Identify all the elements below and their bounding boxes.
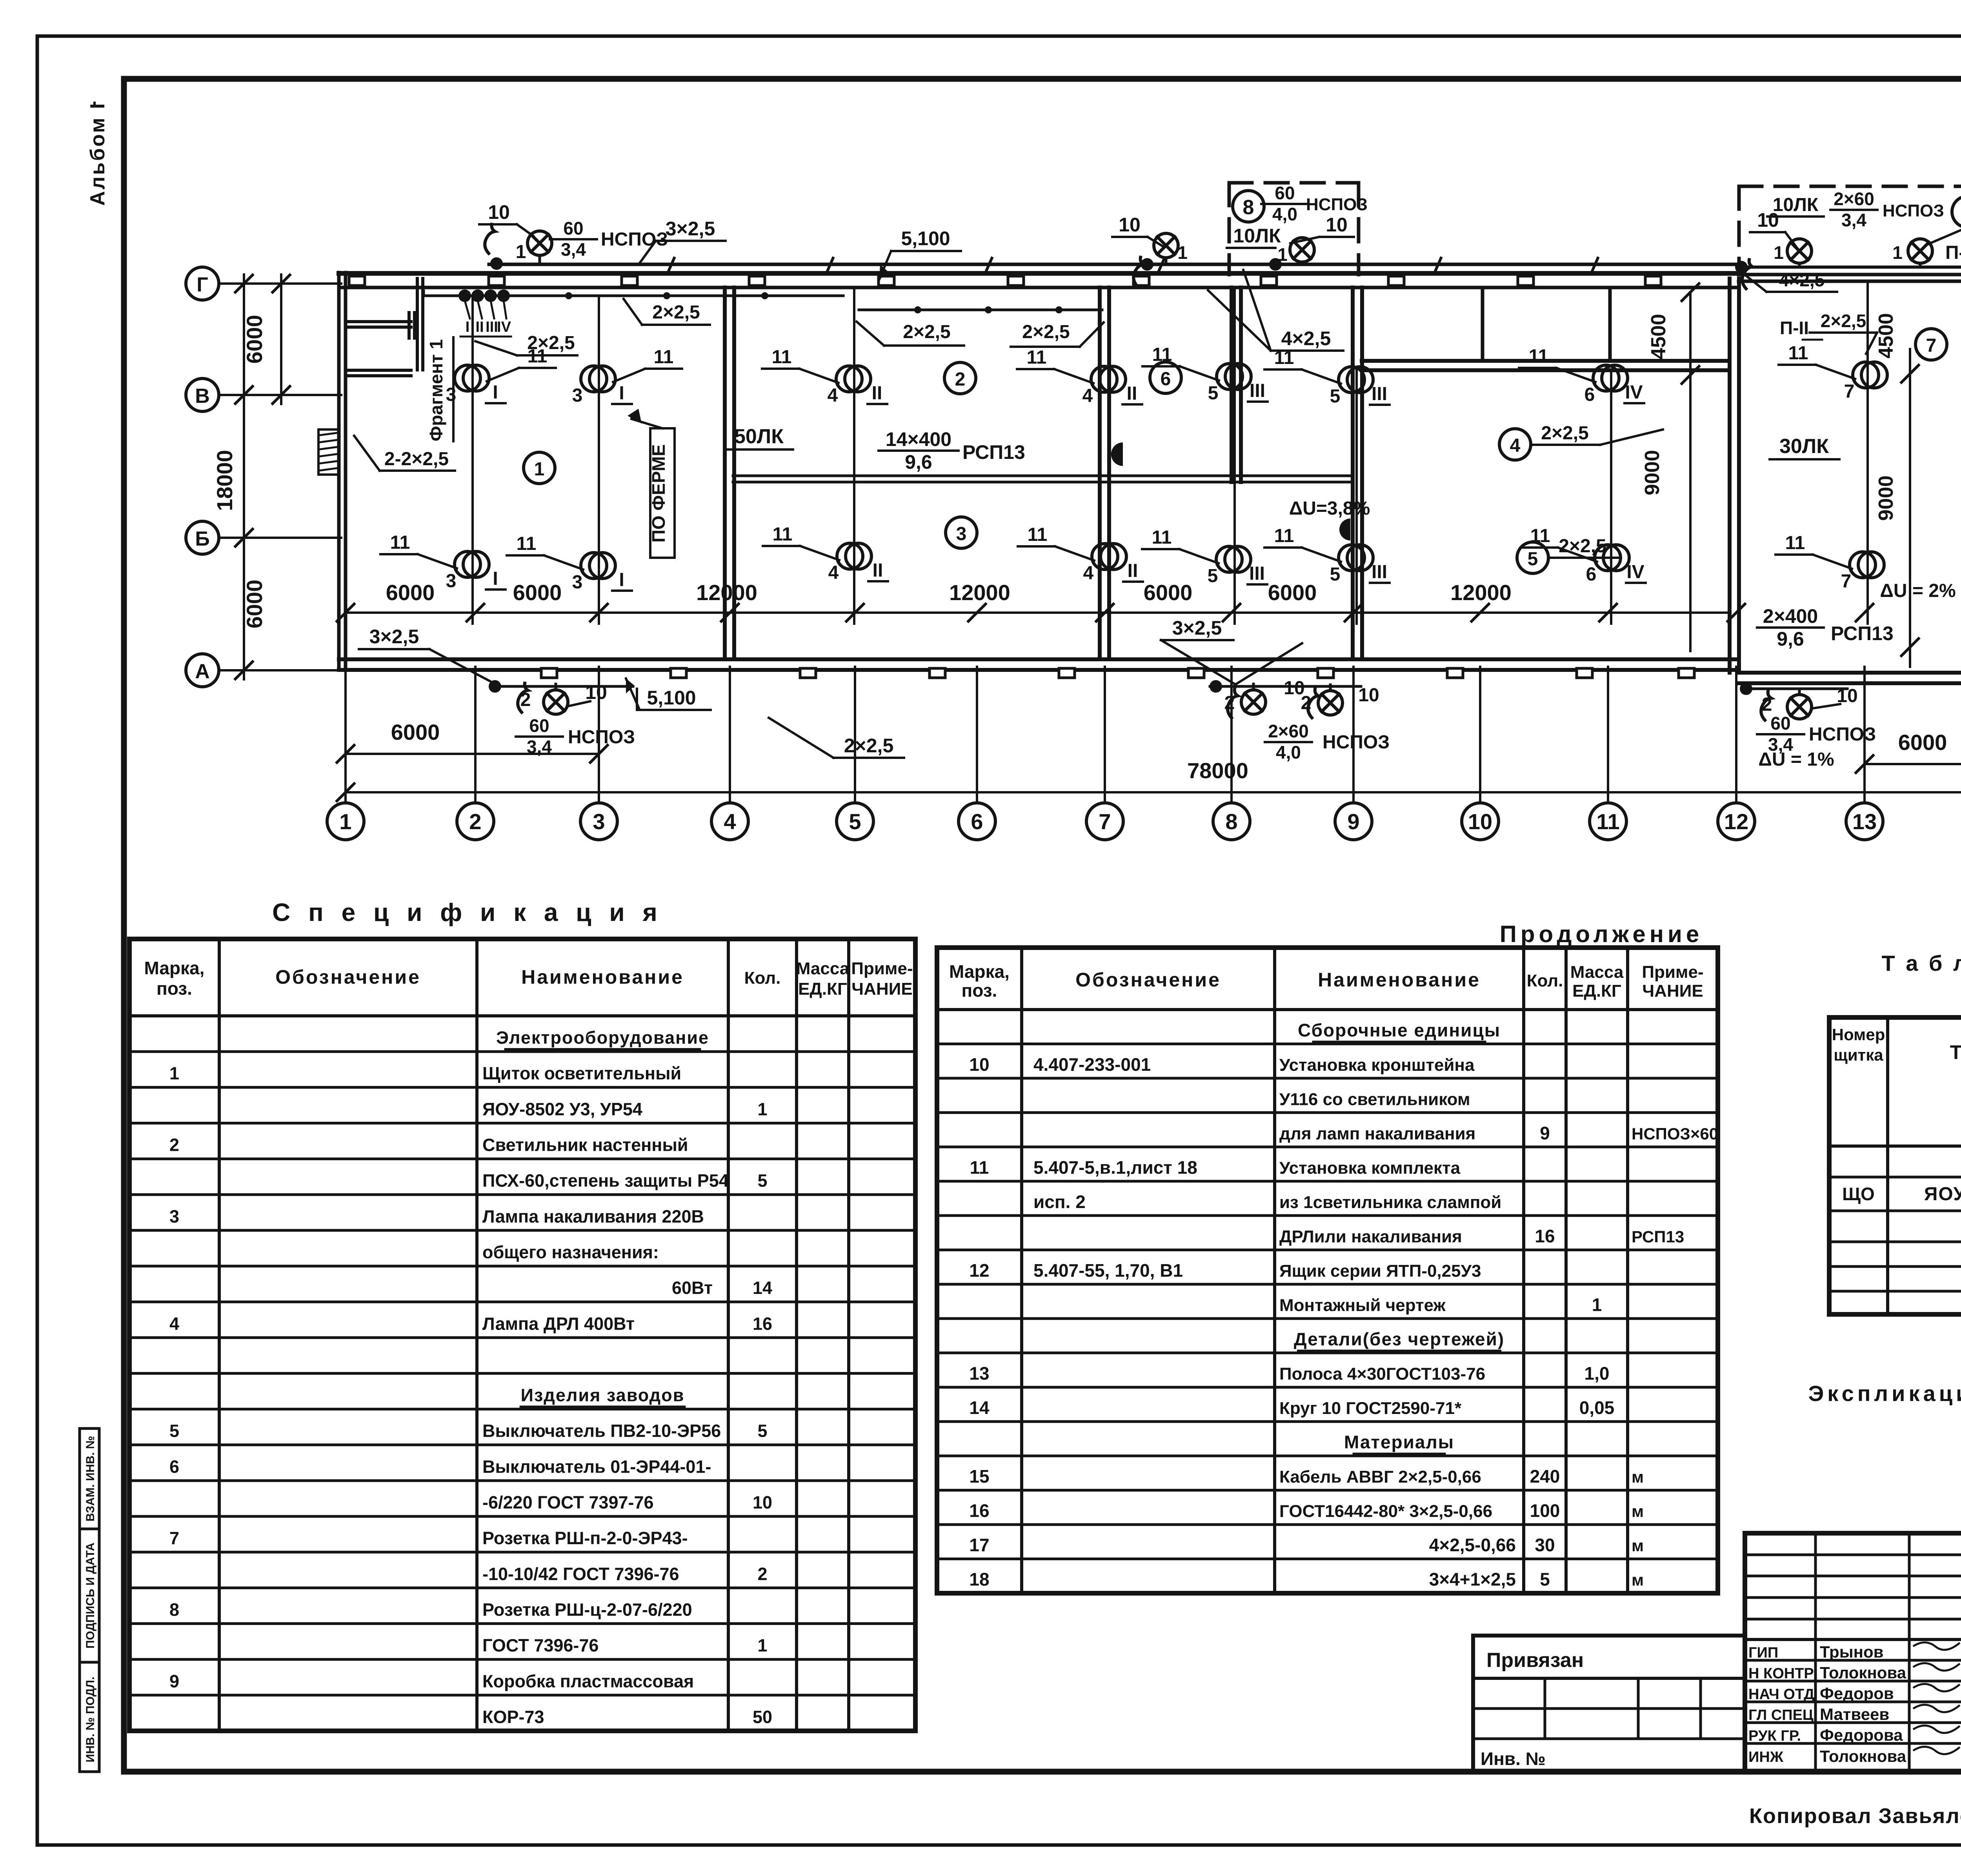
wall lamp 4-II: [836, 366, 862, 392]
svg-text:НАЧ ОТД: НАЧ ОТД: [1748, 1686, 1814, 1703]
svg-text:3,4: 3,4: [527, 737, 552, 757]
svg-text:2×2,5: 2×2,5: [1821, 311, 1866, 331]
svg-text:60: 60: [563, 218, 583, 238]
svg-text:Установка кронштейна: Установка кронштейна: [1279, 1055, 1475, 1075]
lamp НСПОЗ top: [1787, 239, 1812, 263]
svg-text:30ЛК: 30ЛК: [1779, 435, 1829, 458]
svg-text:Выключатель 01-ЭР44-01-: Выключатель 01-ЭР44-01-: [482, 1457, 711, 1477]
svg-text:поз.: поз.: [156, 978, 192, 999]
svg-text:10: 10: [1358, 685, 1379, 706]
svg-text:ГЛ СПЕЦ: ГЛ СПЕЦ: [1748, 1707, 1814, 1723]
svg-text:3: 3: [446, 571, 457, 591]
wall lamp 7-: [1853, 362, 1879, 388]
svg-text:НСПОЗ: НСПОЗ: [1322, 732, 1390, 753]
svg-text:2: 2: [955, 369, 966, 390]
svg-text:3×2,5: 3×2,5: [1172, 617, 1222, 639]
svg-text:4: 4: [1083, 563, 1094, 584]
vertical dims 4500 9000 mid: [1689, 292, 1692, 651]
svg-text:11: 11: [1529, 346, 1549, 367]
svg-text:6000: 6000: [242, 315, 267, 364]
wall lamp 3-I: [455, 551, 480, 577]
vertical dims 4500 9000 right block: [1909, 349, 1911, 667]
svg-text:В: В: [195, 385, 210, 408]
svg-text:Фрагмент 1: Фрагмент 1: [426, 339, 446, 441]
svg-text:8: 8: [169, 1599, 179, 1619]
bottom lamp labels right: [1740, 682, 1752, 695]
svg-text:6: 6: [169, 1457, 179, 1477]
dimension 6000 axes 13-14: [1865, 763, 1961, 765]
partition top rooms strip 9-12: [1362, 359, 1730, 363]
svg-text:III: III: [1372, 562, 1387, 582]
partition left block vertical: [416, 278, 419, 370]
room bubble 4: [1499, 429, 1531, 460]
svg-text:2×2,5: 2×2,5: [1559, 536, 1606, 557]
svg-text:11: 11: [970, 1157, 989, 1177]
svg-text:13: 13: [969, 1363, 989, 1384]
svg-text:4: 4: [1082, 386, 1093, 406]
bottom lamp labels left: [489, 680, 501, 693]
svg-text:ЕД.КГ: ЕД.КГ: [798, 979, 847, 999]
svg-text:60: 60: [529, 715, 549, 736]
svg-text:1: 1: [1892, 242, 1903, 263]
svg-text:100: 100: [1530, 1501, 1560, 1521]
svg-text:из 1светильника слампой: из 1светильника слампой: [1279, 1193, 1501, 1212]
svg-text:5.407-55, 1,70, В1: 5.407-55, 1,70, В1: [1033, 1260, 1183, 1281]
svg-text:3: 3: [446, 384, 457, 405]
axis 10 bubble: [1462, 803, 1499, 840]
privyazan box: [1473, 1636, 1745, 1772]
lamp НСПОЗ bottom: [1318, 691, 1343, 715]
bottom lamp labels middle: [1210, 680, 1222, 693]
svg-text:Копировал Завьялова: Копировал Завьялова: [1749, 1804, 1961, 1828]
dimension 6000 axes 1-2: [346, 753, 599, 755]
panels table grid: [1829, 1017, 1961, 1314]
svg-text:11: 11: [390, 532, 410, 553]
spec table 1 grid: [129, 939, 915, 1731]
svg-text:поз.: поз.: [962, 980, 997, 1001]
svg-text:РСП13: РСП13: [962, 441, 1025, 463]
svg-text:5: 5: [1330, 386, 1341, 407]
partition wall axis 9: [1351, 287, 1355, 659]
svg-text:Сборочные единицы: Сборочные единицы: [1298, 1020, 1501, 1040]
svg-text:5: 5: [1208, 566, 1218, 586]
svg-text:Розетка РШ-ц-2-07-6/220: Розетка РШ-ц-2-07-6/220: [482, 1599, 692, 1619]
svg-text:10: 10: [969, 1054, 989, 1075]
svg-text:3×4+1×2,5: 3×4+1×2,5: [1429, 1569, 1516, 1590]
lamp НСПОЗ top: [1908, 239, 1932, 263]
wall lamp 3-I: [581, 553, 607, 579]
axis 7 bubble: [1086, 803, 1123, 840]
svg-text:12: 12: [969, 1260, 989, 1281]
svg-text:3: 3: [169, 1206, 179, 1226]
axis Г bubble: [186, 267, 219, 300]
svg-text:III: III: [1372, 384, 1387, 404]
svg-text:П-II: П-II: [1780, 318, 1809, 338]
svg-text:16: 16: [969, 1501, 989, 1521]
svg-text:II: II: [475, 319, 484, 335]
right block bottom wall: [1739, 671, 1961, 675]
svg-text:11: 11: [773, 524, 793, 545]
partition wall axis 12: [1728, 278, 1732, 673]
axis А bubble: [186, 654, 219, 687]
lamp НСПОЗ top: [1154, 233, 1178, 258]
svg-text:Приме-: Приме-: [1642, 963, 1703, 982]
svg-text:3: 3: [956, 524, 967, 544]
svg-text:I: I: [619, 570, 624, 590]
title block main: [1745, 1533, 1961, 1772]
svg-text:ΔU=3,8%: ΔU=3,8%: [1289, 498, 1370, 519]
svg-text:5,100: 5,100: [901, 227, 950, 249]
svg-text:11: 11: [1785, 533, 1805, 553]
svg-text:I: I: [466, 319, 470, 335]
wall lamp 5-III: [1216, 546, 1242, 572]
partition wall axis 7: [1098, 287, 1102, 659]
switch middle: [1133, 257, 1144, 286]
axis 13 bubble: [1846, 803, 1883, 840]
svg-text:7: 7: [1099, 809, 1111, 834]
top rooms divider b: [1608, 287, 1612, 361]
svg-text:2: 2: [469, 809, 481, 834]
svg-text:4×2,5-0,66: 4×2,5-0,66: [1429, 1535, 1516, 1555]
wall lamp 3-I: [581, 366, 607, 392]
svg-text:А: А: [195, 660, 210, 683]
svg-text:1: 1: [757, 1099, 767, 1119]
partition left block room upper: [346, 320, 411, 323]
room bubble 2: [944, 362, 976, 394]
svg-text:-10-10/42 ГОСТ 7396-76: -10-10/42 ГОСТ 7396-76: [482, 1564, 679, 1584]
wire break ticks: [669, 258, 674, 271]
svg-text:7: 7: [1926, 335, 1937, 356]
svg-text:6: 6: [1584, 384, 1595, 405]
svg-text:Федорова: Федорова: [1820, 1726, 1903, 1744]
dashed outline room 8 middle: [1229, 181, 1359, 185]
svg-text:11: 11: [1152, 527, 1172, 548]
svg-text:ΔU = 1%: ΔU = 1%: [1758, 749, 1834, 770]
svg-text:2: 2: [1224, 693, 1235, 713]
svg-text:6000: 6000: [1898, 730, 1947, 755]
svg-text:3,4: 3,4: [1841, 210, 1866, 230]
svg-text:Масса: Масса: [796, 959, 850, 978]
wall pilasters top: [349, 276, 365, 286]
svg-text:6000: 6000: [386, 580, 435, 605]
axis 11 bubble: [1590, 803, 1626, 840]
svg-text:0,05: 0,05: [1579, 1397, 1615, 1418]
svg-text:1: 1: [1592, 1295, 1602, 1315]
svg-text:2×2,5: 2×2,5: [844, 735, 894, 757]
svg-text:Масса: Масса: [1570, 963, 1624, 982]
svg-text:м: м: [1632, 1468, 1644, 1486]
svg-text:Изделия заводов: Изделия заводов: [521, 1385, 685, 1405]
partition wall axis 8 partial: [1230, 287, 1233, 482]
svg-text:4500: 4500: [1875, 313, 1897, 358]
svg-text:П-III: П-III: [1945, 242, 1961, 263]
svg-text:РСП13: РСП13: [1632, 1227, 1684, 1246]
lamp НСПОЗ bottom: [544, 690, 568, 714]
svg-text:для ламп накаливания: для ламп накаливания: [1279, 1124, 1475, 1143]
lamp НСПОЗ top: [528, 231, 552, 255]
svg-text:Г: Г: [196, 273, 208, 296]
svg-text:10ЛК: 10ЛК: [1773, 195, 1819, 215]
lamp НСПОЗ bottom: [1787, 695, 1812, 719]
svg-text:С п е ц и ф и к а ц и я: С п е ц и ф и к а ц и я: [272, 898, 663, 926]
svg-text:7: 7: [169, 1528, 179, 1548]
svg-text:II: II: [872, 383, 882, 404]
svg-text:ИНВ. № ПОДЛ.: ИНВ. № ПОДЛ.: [84, 1677, 97, 1763]
inner group wire room 2: [859, 309, 1102, 311]
room bubble 7: [1916, 329, 1947, 360]
svg-text:60: 60: [1770, 713, 1790, 733]
wall lamp 3-I: [455, 365, 480, 391]
svg-text:ГОСТ16442-80* 3×2,5-0,66: ГОСТ16442-80* 3×2,5-0,66: [1279, 1502, 1492, 1521]
svg-text:9: 9: [169, 1671, 179, 1691]
svg-text:ЧАНИЕ: ЧАНИЕ: [1642, 981, 1703, 1001]
svg-text:6000: 6000: [513, 580, 562, 605]
svg-text:Матвеев: Матвеев: [1820, 1705, 1889, 1723]
svg-text:Толокнова: Толокнова: [1820, 1747, 1906, 1765]
svg-text:Детали(без чертежей): Детали(без чертежей): [1294, 1329, 1504, 1349]
svg-text:12000: 12000: [1450, 580, 1512, 605]
axis В bubble: [186, 378, 219, 411]
svg-text:60: 60: [1275, 183, 1295, 203]
svg-text:Полоса 4×30ГОСТ103-76: Полоса 4×30ГОСТ103-76: [1279, 1365, 1485, 1384]
svg-text:5.407-5,в.1,лист 18: 5.407-5,в.1,лист 18: [1033, 1157, 1197, 1177]
svg-text:III: III: [1249, 563, 1265, 584]
svg-text:Федоров: Федоров: [1820, 1684, 1894, 1703]
svg-text:10: 10: [753, 1492, 772, 1512]
svg-text:4: 4: [828, 385, 838, 406]
switch top-left: [485, 224, 495, 253]
room 8 bubble right: [1952, 196, 1961, 227]
axis 4 bubble: [711, 803, 748, 840]
svg-text:16: 16: [1535, 1226, 1555, 1246]
svg-text:6000: 6000: [391, 720, 440, 744]
svg-text:Лампа ДРЛ 400Вт: Лампа ДРЛ 400Вт: [482, 1314, 635, 1334]
svg-text:10: 10: [1757, 209, 1779, 231]
sconce circuit verticals: [471, 297, 474, 624]
axis 2 bubble: [457, 803, 494, 840]
svg-text:щитка: щитка: [1834, 1046, 1883, 1064]
wall lamp 5-III: [1339, 545, 1364, 571]
svg-text:30: 30: [1535, 1535, 1555, 1555]
svg-text:ГИП: ГИП: [1748, 1645, 1778, 1661]
svg-text:Кол.: Кол.: [1527, 971, 1563, 990]
wall pilasters bottom: [541, 668, 557, 678]
labels I II III IV with dots: [458, 289, 471, 302]
svg-text:ПОДПИСЬ И ДАТА: ПОДПИСЬ И ДАТА: [84, 1543, 97, 1649]
wall lamp 5-III: [1217, 364, 1242, 389]
svg-text:6: 6: [971, 809, 983, 834]
svg-text:Трынов: Трынов: [1820, 1643, 1883, 1661]
svg-text:2×2,5: 2×2,5: [1541, 423, 1588, 444]
svg-text:НСПОЗ: НСПОЗ: [601, 229, 668, 250]
wall lamp 6-IV: [1593, 365, 1619, 391]
room bubble 1: [524, 452, 555, 484]
svg-text:11: 11: [1028, 524, 1048, 545]
svg-text:50: 50: [753, 1707, 772, 1727]
axis 5 bubble: [837, 803, 873, 840]
svg-text:3,4: 3,4: [561, 239, 586, 260]
svg-text:У116 со светильником: У116 со светильником: [1279, 1090, 1470, 1109]
svg-text:II: II: [1128, 560, 1138, 581]
wall lamp 5-III: [1339, 367, 1364, 393]
stair hatch outside left wall: [318, 429, 339, 475]
svg-text:2-2×2,5: 2-2×2,5: [384, 449, 449, 469]
svg-text:Н КОНТР: Н КОНТР: [1748, 1665, 1814, 1682]
svg-text:11: 11: [1788, 343, 1808, 364]
svg-text:ВЗАМ. ИНВ. №: ВЗАМ. ИНВ. №: [84, 1436, 97, 1521]
right block top wall: [1739, 273, 1961, 277]
axis 6 bubble: [959, 803, 995, 840]
svg-text:Наименование: Наименование: [521, 966, 684, 988]
svg-text:9: 9: [1347, 809, 1359, 834]
svg-text:III: III: [486, 319, 498, 335]
svg-text:1,0: 1,0: [1584, 1363, 1610, 1384]
svg-text:общего назначения:: общего назначения:: [482, 1242, 659, 1262]
svg-text:78000: 78000: [1187, 758, 1248, 783]
axis 9 bubble: [1335, 803, 1372, 840]
svg-text:4.407-233-001: 4.407-233-001: [1033, 1054, 1151, 1075]
svg-text:4×2,5: 4×2,5: [1779, 270, 1825, 290]
svg-text:5: 5: [169, 1421, 179, 1441]
svg-text:II: II: [1127, 383, 1137, 404]
lamp НСПОЗ bottom: [1241, 690, 1266, 714]
svg-text:2×60: 2×60: [1268, 721, 1309, 741]
svg-text:13: 13: [1852, 809, 1877, 834]
svg-text:10: 10: [1468, 809, 1492, 834]
svg-text:Марка,: Марка,: [144, 958, 205, 978]
svg-text:исп. 2: исп. 2: [1033, 1192, 1086, 1212]
svg-text:Выключатель ПВ2-10-ЭР56: Выключатель ПВ2-10-ЭР56: [482, 1421, 721, 1441]
svg-text:ПСХ-60,степень защиты Р54: ПСХ-60,степень защиты Р54: [482, 1171, 729, 1191]
svg-text:НСПОЗ: НСПОЗ: [1809, 724, 1876, 745]
svg-text:ДРЛили накаливания: ДРЛили накаливания: [1279, 1227, 1462, 1246]
svg-text:ΔU = 2%: ΔU = 2%: [1880, 580, 1956, 601]
svg-text:Альбом I: Альбом I: [86, 102, 109, 206]
svg-text:м: м: [1632, 1502, 1644, 1521]
svg-text:9,6: 9,6: [1777, 628, 1804, 650]
svg-text:4: 4: [724, 809, 736, 834]
panel dot axis7: [1111, 442, 1123, 466]
svg-text:6000: 6000: [242, 580, 267, 629]
svg-text:12000: 12000: [949, 580, 1010, 605]
svg-text:Коробка пластмассовая: Коробка пластмассовая: [482, 1671, 694, 1691]
axis 1 bubble: [327, 803, 364, 840]
svg-text:18: 18: [969, 1569, 989, 1590]
overall dimension 78000: [346, 791, 1961, 793]
svg-text:РУК ГР.: РУК ГР.: [1748, 1728, 1801, 1744]
axis 12 bubble: [1718, 803, 1755, 840]
svg-text:11: 11: [654, 347, 674, 368]
svg-text:5: 5: [1528, 549, 1538, 570]
inner group wire left block: [424, 295, 843, 297]
svg-text:2: 2: [1762, 694, 1772, 715]
svg-text:10: 10: [488, 201, 510, 223]
svg-text:Монтажный чертеж: Монтажный чертеж: [1279, 1296, 1446, 1315]
svg-text:5: 5: [1540, 1569, 1550, 1590]
svg-text:Инв. №: Инв. №: [1481, 1749, 1546, 1769]
wire bottom right segment: [1743, 688, 1847, 690]
svg-text:11: 11: [517, 533, 537, 554]
svg-text:Обозначение: Обозначение: [1075, 969, 1221, 991]
svg-text:Наименование: Наименование: [1318, 969, 1481, 991]
svg-text:1: 1: [1177, 242, 1188, 263]
svg-text:Розетка РШ-п-2-0-ЭР43-: Розетка РШ-п-2-0-ЭР43-: [482, 1528, 688, 1548]
svg-text:4: 4: [169, 1314, 179, 1334]
svg-text:9000: 9000: [1875, 475, 1897, 521]
svg-text:5: 5: [757, 1421, 767, 1441]
svg-text:10: 10: [1119, 214, 1141, 236]
partition left block room lower: [346, 369, 411, 372]
axis Б bubble: [186, 521, 219, 554]
svg-text:8: 8: [1225, 809, 1237, 834]
interior rail line: [733, 475, 1353, 477]
svg-text:-6/220 ГОСТ 7397-76: -6/220 ГОСТ 7397-76: [482, 1492, 654, 1512]
svg-text:Приме-: Приме-: [851, 959, 913, 978]
svg-text:16: 16: [753, 1314, 772, 1334]
svg-text:7: 7: [1844, 381, 1855, 402]
svg-text:3×2,5: 3×2,5: [666, 218, 715, 240]
svg-text:3: 3: [572, 572, 583, 593]
svg-text:Материалы: Материалы: [1344, 1432, 1454, 1452]
svg-text:10: 10: [1326, 214, 1348, 236]
svg-text:3: 3: [572, 385, 583, 406]
svg-text:РСП13: РСП13: [1831, 622, 1894, 644]
svg-text:4: 4: [1510, 435, 1521, 456]
svg-text:Установка комплекта: Установка комплекта: [1279, 1158, 1461, 1177]
svg-text:18000: 18000: [212, 450, 237, 511]
svg-text:ЧАНИЕ: ЧАНИЕ: [851, 979, 912, 999]
lamp НСПОЗ top: [1290, 238, 1314, 262]
svg-text:Привязан: Привязан: [1486, 1649, 1584, 1672]
svg-text:4,0: 4,0: [1276, 742, 1301, 762]
svg-text:9000: 9000: [1641, 450, 1664, 495]
svg-text:ЯОУ-8502 У3, УР54: ЯОУ-8502 У3, УР54: [482, 1099, 642, 1119]
svg-text:1: 1: [1774, 242, 1784, 263]
svg-text:Кол.: Кол.: [744, 968, 781, 988]
bottom dimension line: [346, 611, 1730, 614]
svg-text:4500: 4500: [1647, 314, 1670, 359]
svg-text:5: 5: [849, 809, 861, 834]
svg-text:ЩО: ЩО: [1842, 1184, 1875, 1204]
svg-text:4: 4: [828, 562, 839, 583]
svg-text:1: 1: [534, 459, 545, 480]
svg-text:5: 5: [1330, 564, 1341, 585]
room bubble 5: [1517, 542, 1548, 573]
svg-text:11: 11: [1274, 526, 1294, 546]
wire top run: [489, 263, 1739, 266]
svg-text:1: 1: [516, 242, 526, 262]
svg-text:5: 5: [1208, 383, 1219, 404]
svg-text:9,6: 9,6: [905, 451, 932, 473]
svg-text:2: 2: [169, 1135, 179, 1155]
svg-text:2: 2: [1301, 693, 1312, 713]
svg-text:17: 17: [969, 1535, 989, 1555]
svg-text:II: II: [873, 560, 883, 581]
wall left exterior: [337, 273, 341, 670]
svg-text:Т а б л и ц а п у н к т о в: Т а б л и ц а п у н к т о в и щ и т к о …: [1881, 951, 1961, 975]
svg-text:I: I: [493, 382, 498, 403]
wall lamp 4-II: [837, 543, 863, 569]
svg-text:11: 11: [772, 347, 792, 368]
left dimension line 18000: [243, 275, 245, 679]
svg-text:2×400: 2×400: [1763, 605, 1818, 627]
wire right block: [1739, 266, 1961, 269]
svg-text:14: 14: [753, 1278, 772, 1298]
svg-text:IV: IV: [1626, 562, 1644, 582]
svg-text:Электрооборудование: Электрооборудование: [496, 1028, 709, 1048]
svg-text:ЯОУ-8502: ЯОУ-8502: [1924, 1184, 1961, 1205]
wall lamp 7-: [1850, 552, 1876, 578]
